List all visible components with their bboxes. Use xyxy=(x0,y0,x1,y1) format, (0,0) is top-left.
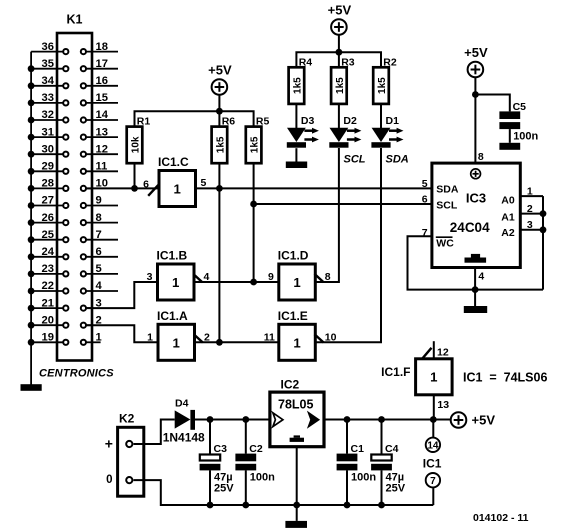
stub to ground symbol xyxy=(474,290,476,306)
svg-text:R1: R1 xyxy=(137,116,151,128)
wire IC3 A0 pin 1 xyxy=(520,195,543,197)
connector K1 (Centronics) xyxy=(31,13,118,361)
svg-text:R3: R3 xyxy=(341,56,355,68)
inverter gate IC1.E xyxy=(278,309,316,361)
inversion slash IC1.C output 6 xyxy=(148,184,159,196)
svg-text:4: 4 xyxy=(478,271,484,283)
inversion slash IC1.A output 2 xyxy=(194,334,203,342)
svg-text:12: 12 xyxy=(96,143,108,155)
inversion slash IC1.E output 10 xyxy=(315,334,324,342)
ground symbol (IC2) xyxy=(285,521,307,528)
wire C4 top lead xyxy=(381,420,383,454)
svg-text:25V: 25V xyxy=(386,482,406,494)
inverter gate IC1.C xyxy=(158,155,196,207)
inverter gate IC1.B xyxy=(157,249,195,301)
LED D3 xyxy=(287,115,319,148)
svg-text:30: 30 xyxy=(42,143,54,155)
junction dot rail/R3 xyxy=(336,49,343,56)
svg-text:C2: C2 xyxy=(249,443,263,455)
wire C5 to ground xyxy=(509,129,511,143)
junction dot R5 vertical / IC1.B-IC1.D line xyxy=(250,279,257,286)
svg-text:78L05: 78L05 xyxy=(278,398,313,412)
svg-text:SCL: SCL xyxy=(436,200,458,212)
svg-text:R4: R4 xyxy=(299,56,313,68)
svg-text:19: 19 xyxy=(42,332,54,344)
junction dot C3 xyxy=(207,416,214,423)
svg-text:100n: 100n xyxy=(513,131,538,143)
svg-text:1k5: 1k5 xyxy=(335,77,346,94)
wire C3 top lead xyxy=(209,420,211,454)
junction dot C2 xyxy=(242,416,249,423)
svg-text:D2: D2 xyxy=(343,115,357,127)
svg-text:1: 1 xyxy=(293,275,300,290)
svg-text:A0: A0 xyxy=(501,194,515,206)
svg-text:C5: C5 xyxy=(513,101,527,113)
wire IC1.D output 8 up to LED D2 xyxy=(315,148,339,282)
svg-text:27: 27 xyxy=(42,195,54,207)
ground symbol (C5) xyxy=(499,143,520,150)
junction dots on ground bus xyxy=(28,65,35,345)
svg-text:17: 17 xyxy=(96,58,108,70)
ground bus wire (K1 left pins) xyxy=(30,52,32,385)
svg-text:24: 24 xyxy=(42,246,55,258)
svg-text:35: 35 xyxy=(42,58,54,70)
junction dot IC1.F pin13 / IC1 pin14 xyxy=(430,416,437,423)
inverter gate IC1.A xyxy=(157,309,195,361)
ground symbol (D3) xyxy=(286,162,307,169)
resistor R1 xyxy=(127,116,151,164)
svg-text:IC1.B: IC1.B xyxy=(157,249,188,263)
svg-text:14: 14 xyxy=(96,109,109,121)
resistor R4 xyxy=(289,56,313,104)
diode D4 1N4148 xyxy=(163,397,205,444)
svg-text:014102 - 11: 014102 - 11 xyxy=(473,512,529,524)
svg-text:1: 1 xyxy=(173,335,180,350)
wire IC3 pin 4 to ground line xyxy=(474,268,476,290)
svg-text:21: 21 xyxy=(42,297,54,309)
svg-text:6: 6 xyxy=(143,178,149,190)
svg-text:1: 1 xyxy=(174,182,181,197)
+5V supply symbol (S1) xyxy=(208,63,232,95)
wire IC3 A1 pin 2 xyxy=(520,213,543,215)
svg-text:R5: R5 xyxy=(256,116,270,128)
junction dot C1 xyxy=(344,416,351,423)
capacitor C3 xyxy=(200,443,235,494)
wire C4 bottom lead xyxy=(381,470,383,505)
svg-text:IC1.F: IC1.F xyxy=(381,365,410,379)
svg-text:IC1.D: IC1.D xyxy=(278,249,309,263)
+5V supply symbol (S3) xyxy=(464,45,488,77)
svg-text:1: 1 xyxy=(147,331,153,343)
svg-text:IC1: IC1 xyxy=(423,456,442,470)
capacitor C4 xyxy=(371,443,406,494)
svg-text:IC1.A: IC1.A xyxy=(157,309,188,323)
wire R6 bottom down to IC1.A output line xyxy=(218,163,220,342)
stub to ground symbol xyxy=(296,505,298,521)
junction dot A2 xyxy=(540,226,547,233)
junction dot C4 xyxy=(378,416,385,423)
svg-text:D3: D3 xyxy=(301,115,315,127)
wire IC2 output (+5V rail) xyxy=(324,419,450,421)
svg-text:18: 18 xyxy=(96,41,108,53)
svg-text:0: 0 xyxy=(106,474,112,486)
wire IC1.B.4 to IC1.D.9 xyxy=(194,281,279,283)
wire C2 top lead xyxy=(245,420,247,454)
svg-text:1k5: 1k5 xyxy=(215,136,226,153)
wire R4 to D3 xyxy=(295,104,297,128)
inversion slash IC1.F output 12 xyxy=(422,348,432,360)
svg-text:K1: K1 xyxy=(67,13,83,27)
junction dot R6 vertical / IC1.A-IC1.E line xyxy=(216,339,223,346)
svg-text:16: 16 xyxy=(96,75,108,87)
svg-text:25V: 25V xyxy=(214,482,234,494)
svg-text:100n: 100n xyxy=(250,471,275,483)
wire +5V to rail xyxy=(218,95,220,111)
svg-text:100n: 100n xyxy=(351,471,376,483)
resistor R6 xyxy=(212,116,236,164)
svg-text:D1: D1 xyxy=(386,115,400,127)
svg-text:+5V: +5V xyxy=(472,413,496,428)
svg-text:33: 33 xyxy=(42,92,54,104)
svg-text:8: 8 xyxy=(478,151,484,163)
svg-text:15: 15 xyxy=(96,92,108,104)
svg-text:6: 6 xyxy=(422,194,428,206)
junction dot C4 ground xyxy=(378,502,385,509)
wire K1 pin 10 to IC1.C pin 6 xyxy=(86,187,158,189)
junction dot R1/pin10 line xyxy=(131,185,138,192)
svg-text:13: 13 xyxy=(96,126,108,138)
svg-text:SDA: SDA xyxy=(436,184,459,196)
svg-text:WC: WC xyxy=(436,238,454,250)
wire R1 bottom to SDA-in line xyxy=(134,163,136,188)
svg-text:1N4148: 1N4148 xyxy=(163,430,205,444)
svg-text:25: 25 xyxy=(42,229,54,241)
svg-text:29: 29 xyxy=(42,161,54,173)
svg-text:20: 20 xyxy=(42,314,54,326)
+5V rail wire (R4/R3/R2) xyxy=(296,52,381,67)
svg-text:36: 36 xyxy=(42,41,54,53)
svg-text:7: 7 xyxy=(96,229,102,241)
junction dot C3 ground xyxy=(207,502,214,509)
+5V supply symbol (S4) xyxy=(451,412,496,428)
wire C1 bottom lead xyxy=(346,470,348,505)
EEPROM IC3 24C04 xyxy=(432,163,520,267)
svg-text:1k5: 1k5 xyxy=(292,77,303,94)
wire K1 pin 2 to IC1.A pin 1 xyxy=(86,325,158,342)
wire +5V to IC3 pin 8 xyxy=(474,78,476,164)
svg-text:14: 14 xyxy=(427,441,439,452)
junction dot A1 xyxy=(540,210,547,217)
voltage regulator IC2 78L05 xyxy=(270,378,324,447)
wire R5 bottom down to IC1.B output line xyxy=(253,163,255,282)
svg-text:+5V: +5V xyxy=(208,63,232,78)
svg-text:+: + xyxy=(105,436,113,452)
svg-text:IC1 = 74LS06: IC1 = 74LS06 xyxy=(463,371,547,385)
svg-text:1: 1 xyxy=(96,332,102,344)
svg-text:8: 8 xyxy=(96,212,102,224)
svg-text:6: 6 xyxy=(96,246,102,258)
svg-text:A1: A1 xyxy=(501,212,515,224)
wire C3 bottom lead xyxy=(209,470,211,505)
stub R6 top xyxy=(218,111,220,126)
LED D2 xyxy=(329,115,361,148)
svg-text:IC1.C: IC1.C xyxy=(158,155,189,169)
svg-text:13: 13 xyxy=(437,399,449,411)
svg-text:31: 31 xyxy=(42,126,54,138)
SDA wire IC1.C output to IC3 pin 5 xyxy=(196,187,432,189)
svg-text:12: 12 xyxy=(437,346,449,358)
svg-text:R2: R2 xyxy=(383,56,397,68)
LED D1 xyxy=(371,115,403,148)
wire IC3 WC pin 7 to ground line xyxy=(408,236,544,289)
svg-text:SCL: SCL xyxy=(344,154,366,166)
junction dot R5 vertical / SCL line xyxy=(250,201,257,208)
+5V supply symbol (S2) xyxy=(328,3,352,35)
wire IC1.F pin 13 to +5V rail xyxy=(433,395,435,420)
svg-text:SDA: SDA xyxy=(386,154,409,166)
+5V rail wire (R1/R6/R5) xyxy=(135,111,254,126)
junction dot C1 ground xyxy=(344,502,351,509)
svg-text:34: 34 xyxy=(42,75,55,87)
wire IC1.A.2 to IC1.E.11 xyxy=(195,341,279,343)
svg-text:7: 7 xyxy=(430,476,436,487)
stub R3 top xyxy=(338,52,340,67)
wire D3 cathode to ground xyxy=(295,148,297,162)
svg-text:3: 3 xyxy=(147,271,153,283)
svg-text:1: 1 xyxy=(430,370,437,385)
wire IC1.F pin 12 stub xyxy=(433,341,435,359)
wire C1 top lead xyxy=(346,420,348,454)
svg-text:C4: C4 xyxy=(385,443,399,455)
inversion slash IC1.D output 8 xyxy=(315,274,324,282)
svg-text:1k5: 1k5 xyxy=(377,77,388,94)
wire IC2 ground pin xyxy=(296,447,298,505)
inverter gate IC1.F xyxy=(381,359,452,395)
resistor R2 xyxy=(373,56,397,104)
svg-text:5: 5 xyxy=(422,178,428,190)
inverter gate IC1.D xyxy=(278,249,316,301)
svg-text:26: 26 xyxy=(42,212,54,224)
svg-text:IC1.E: IC1.E xyxy=(278,309,308,323)
wire K1 pin 3 to IC1.B pin 3 xyxy=(86,282,157,308)
IC1 ground pin 7 xyxy=(426,473,440,505)
wire +5V to LED rail xyxy=(338,35,340,52)
svg-text:9: 9 xyxy=(96,195,102,207)
wire K2 0 pin to ground rail xyxy=(134,480,434,505)
wire branch to C5 xyxy=(475,95,509,112)
wire IC3 A2 pin 3 xyxy=(520,229,543,231)
svg-text:1: 1 xyxy=(172,275,179,290)
capacitor C2 xyxy=(235,443,275,483)
wire R2 to D1 xyxy=(380,104,382,128)
wire C2 bottom lead xyxy=(245,470,247,505)
junction dot +5V/C5 branch xyxy=(472,91,479,98)
inversion slash IC1.B output 4 xyxy=(193,274,202,282)
capacitor C1 xyxy=(337,443,377,483)
wire R3 to D2 xyxy=(338,104,340,128)
svg-text:C3: C3 xyxy=(214,443,228,455)
junction dot C2 ground xyxy=(242,502,249,509)
svg-text:1k5: 1k5 xyxy=(250,136,261,153)
svg-text:1: 1 xyxy=(293,335,300,350)
junction dot pin4/ground line xyxy=(472,286,479,293)
svg-text:5: 5 xyxy=(96,263,102,275)
svg-text:C1: C1 xyxy=(351,443,365,455)
svg-text:CENTRONICS: CENTRONICS xyxy=(39,368,114,380)
wire D4 cathode to IC2 input xyxy=(195,419,270,421)
connector K2 xyxy=(105,411,144,496)
svg-text:11: 11 xyxy=(96,161,108,173)
junction dot R6 vertical / SDA line xyxy=(216,185,223,192)
wire K2 + pin to D4 anode xyxy=(134,420,175,445)
svg-text:23: 23 xyxy=(42,263,54,275)
svg-text:IC2: IC2 xyxy=(281,378,300,392)
resistor R3 xyxy=(331,56,355,104)
SCL wire to IC3 pin 6 xyxy=(254,203,432,205)
wire IC1.E output 10 up to LED D1 xyxy=(315,148,381,342)
svg-text:4: 4 xyxy=(96,280,103,292)
svg-text:K2: K2 xyxy=(119,411,135,425)
svg-text:IC3: IC3 xyxy=(466,191,486,206)
ground symbol (K1) xyxy=(21,384,42,391)
svg-text:22: 22 xyxy=(42,280,54,292)
svg-text:+5V: +5V xyxy=(464,45,488,60)
svg-text:28: 28 xyxy=(42,178,54,190)
resistor R5 xyxy=(246,116,270,164)
svg-text:A2: A2 xyxy=(501,227,515,239)
svg-text:10k: 10k xyxy=(130,136,141,153)
IC1 supply pin 14 xyxy=(426,420,440,452)
svg-text:R6: R6 xyxy=(222,116,236,128)
svg-text:+5V: +5V xyxy=(328,3,352,18)
ground symbol (IC3) xyxy=(464,306,487,313)
svg-text:D4: D4 xyxy=(175,397,189,409)
wire A-pins vertical xyxy=(542,196,544,290)
svg-text:24C04: 24C04 xyxy=(450,220,490,235)
svg-text:32: 32 xyxy=(42,109,54,121)
capacitor C5 xyxy=(499,101,538,142)
junction dot IC2 ground xyxy=(293,502,300,509)
junction dot +5V rail/R6 xyxy=(216,108,223,115)
